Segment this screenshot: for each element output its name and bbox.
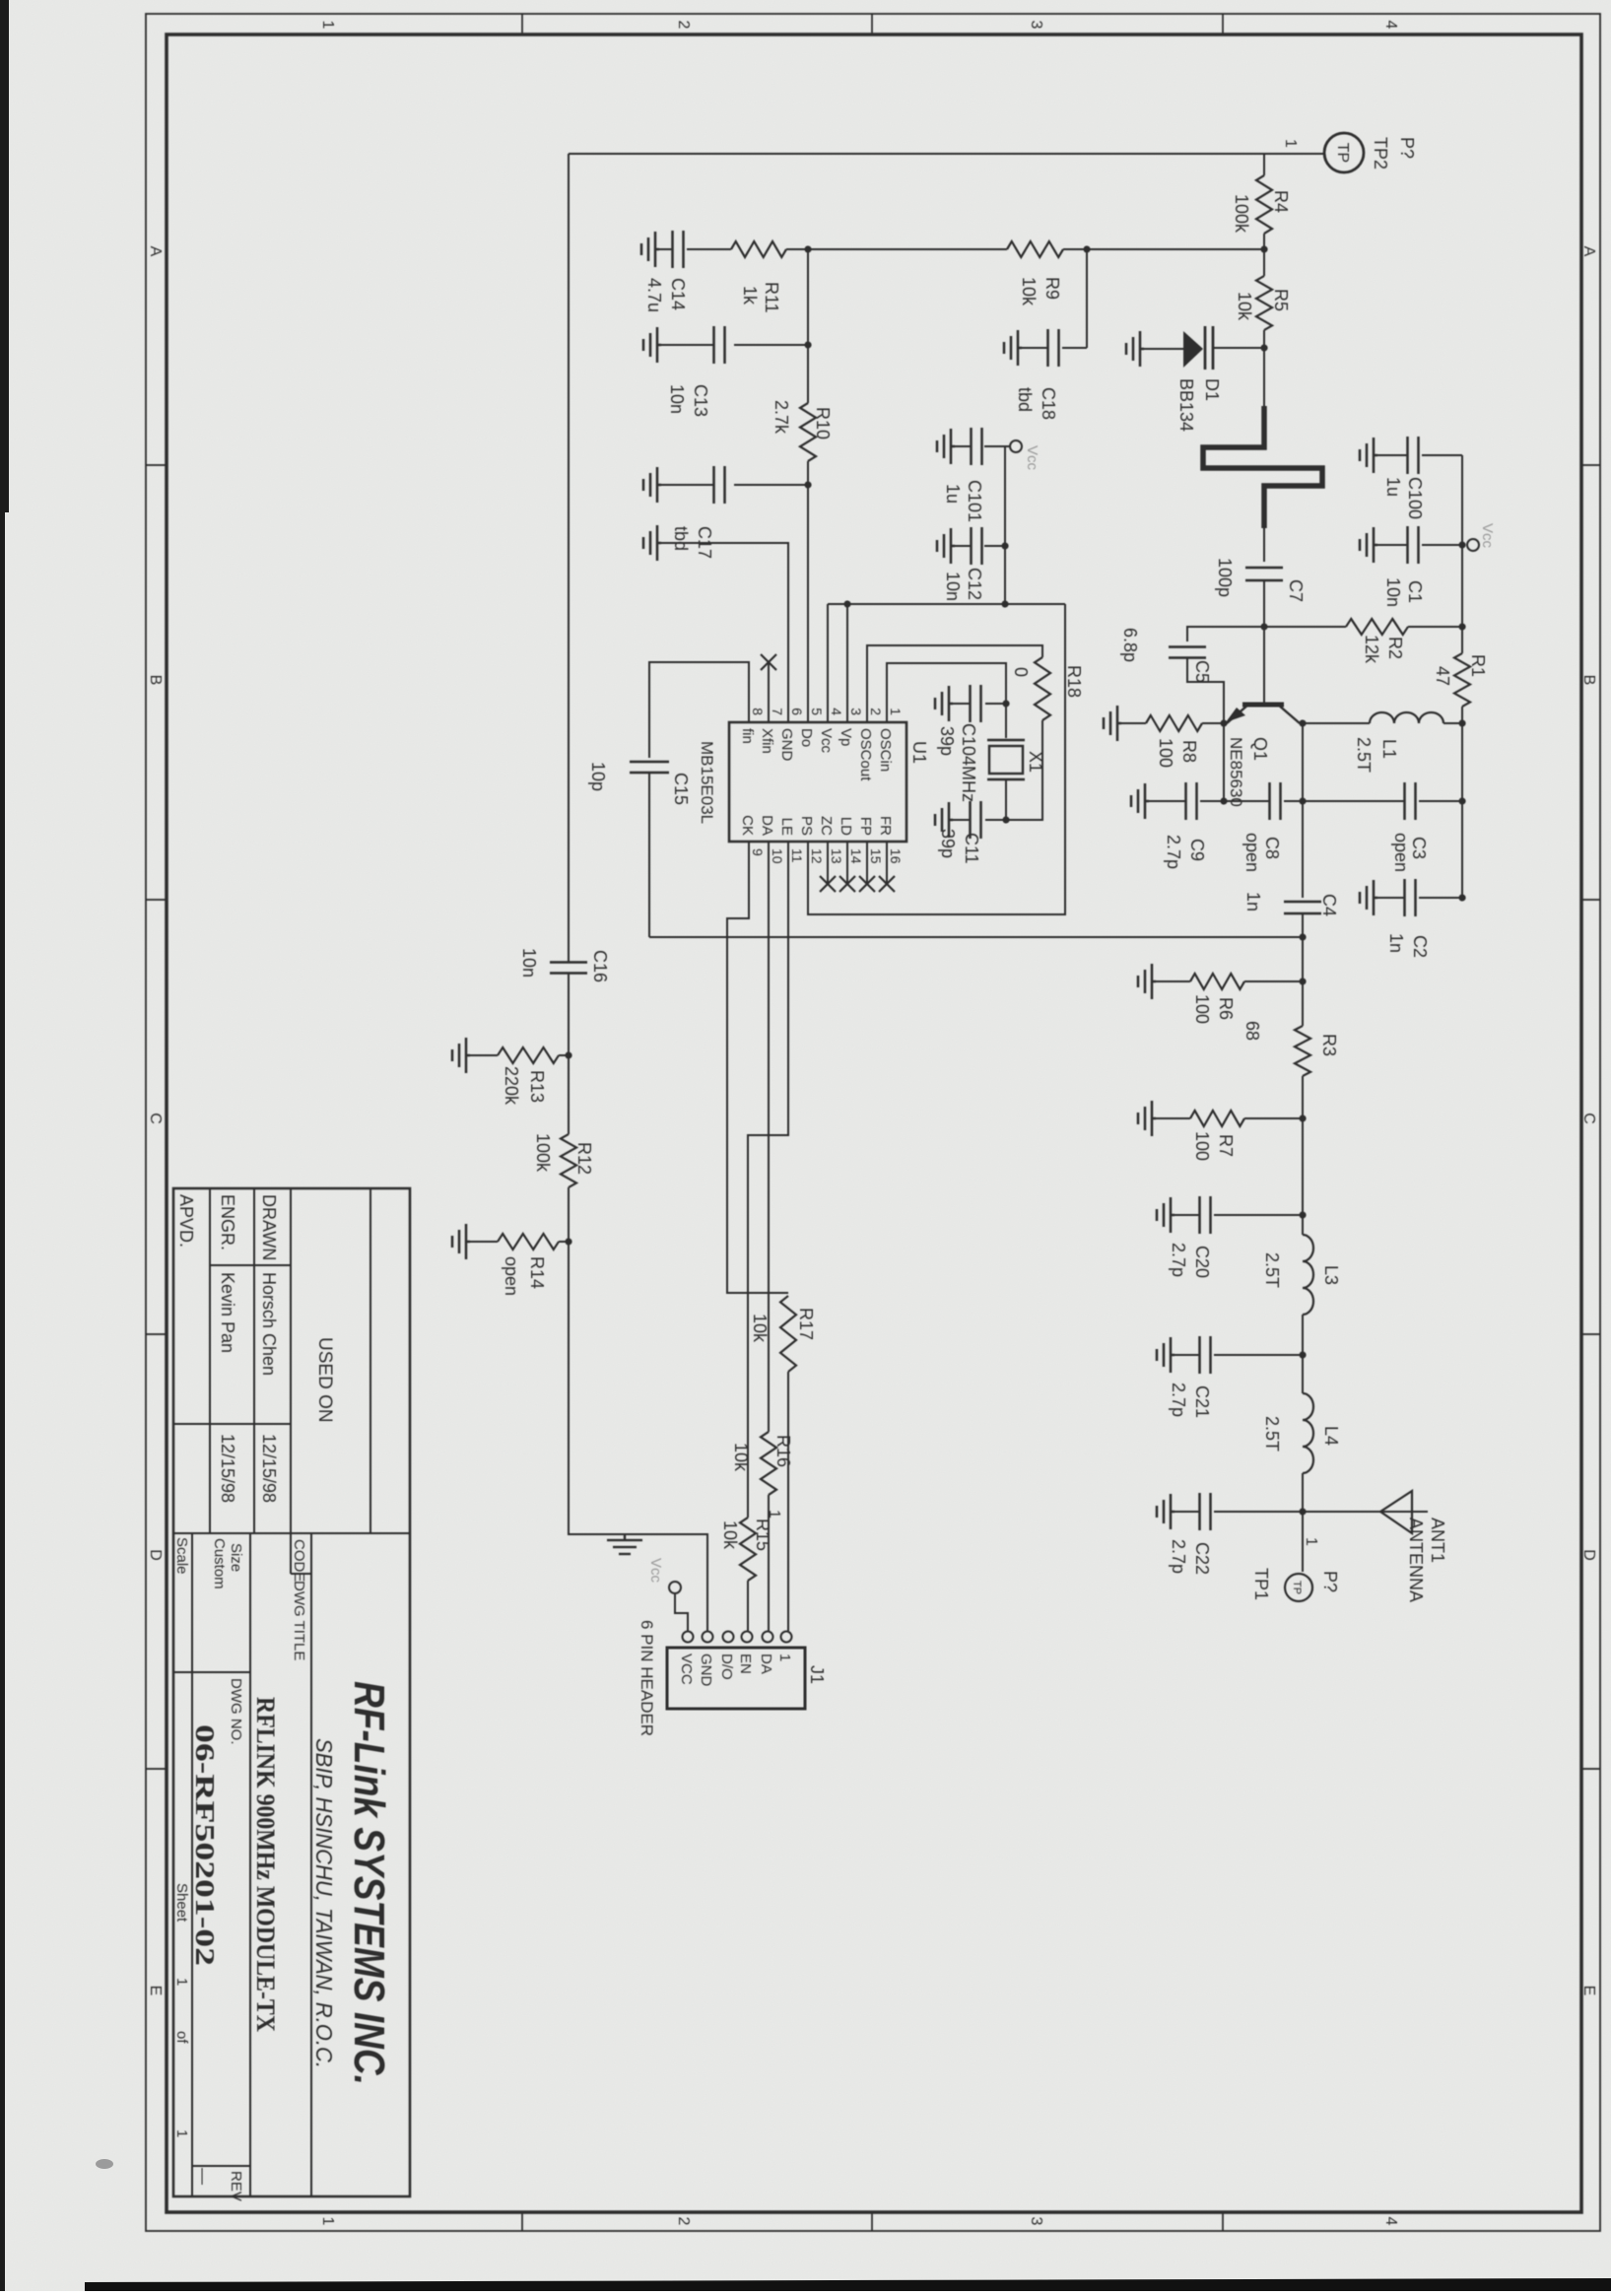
wire U1 GND pin6 route [661, 543, 788, 722]
wire R4R5 node down to C18 node [1063, 248, 1264, 250]
svg-text:Size: Size [228, 1543, 244, 1572]
svg-text:15: 15 [868, 848, 884, 864]
wire U1 Vcc pin4 [827, 604, 829, 722]
resistor R13 220k [498, 1047, 559, 1063]
wire C22 top stub [1214, 1511, 1303, 1513]
capacitor C8 open [1279, 782, 1282, 820]
capacitor C1 10n [1417, 526, 1420, 564]
wire R15 to J1 EN [747, 1581, 749, 1631]
ground at R8 [1104, 706, 1121, 741]
svg-text:12k: 12k [1362, 635, 1381, 664]
svg-text:1: 1 [1282, 139, 1299, 148]
junction D1 node [1260, 344, 1267, 351]
wire U1 fin pin8 route [649, 662, 749, 758]
ground at C21 [1157, 1337, 1175, 1373]
junction node N1 (C7/R2/C5/base) [1260, 623, 1267, 630]
svg-text:C101: C101 [965, 480, 984, 522]
svg-text:DWG NO.: DWG NO. [228, 1678, 244, 1745]
capacitor C20 2.7p [1209, 1196, 1212, 1234]
resistor R12 100k [561, 1134, 576, 1187]
svg-text:TP1: TP1 [1251, 1568, 1271, 1600]
junction X1 bottom node [1002, 816, 1009, 823]
svg-text:1: 1 [319, 2217, 336, 2226]
svg-text:R15: R15 [753, 1519, 772, 1551]
ground at R13 [452, 1038, 470, 1073]
svg-text:LD: LD [838, 817, 854, 836]
svg-text:11: 11 [789, 848, 805, 863]
svg-text:C18: C18 [1039, 387, 1058, 420]
capacitor C13 10n [723, 326, 726, 364]
wire RF riser up to output line [649, 936, 1303, 938]
svg-text:tbd: tbd [671, 526, 691, 551]
junction R2 top node [1458, 623, 1465, 630]
ground at C14 [641, 232, 659, 267]
wire C9 top stub [1200, 800, 1224, 802]
svg-text:14: 14 [848, 848, 864, 864]
svg-text:1n: 1n [1386, 933, 1406, 953]
wire C12 down [984, 545, 1005, 547]
svg-text:Do: Do [798, 728, 815, 747]
svg-text:C4: C4 [1319, 894, 1339, 916]
wire C20 node to L3 [1302, 1215, 1304, 1235]
wire X1 right stub [1005, 779, 1007, 820]
svg-text:P?: P? [1397, 137, 1417, 159]
wire C3 node to C4 [1302, 801, 1304, 898]
resistor R18 0 ohm [1035, 657, 1050, 720]
ground at C12 [937, 528, 955, 564]
inductor L1 2.5T [1370, 712, 1443, 723]
svg-text:C1: C1 [1405, 580, 1425, 603]
wire C18 stub down [1062, 347, 1087, 349]
svg-text:OSCin: OSCin [877, 728, 894, 772]
svg-text:GND: GND [778, 728, 795, 762]
svg-text:R11: R11 [762, 282, 781, 313]
ground on bus to J1 [607, 1534, 642, 1554]
svg-text:C16: C16 [590, 950, 610, 982]
svg-text:R12: R12 [574, 1142, 594, 1175]
wire C1 to ground [1377, 544, 1407, 546]
connector J1 body [667, 1648, 805, 1709]
junction Q1 collector node [1299, 719, 1306, 726]
svg-text:2.5T: 2.5T [1354, 737, 1374, 773]
svg-text:10k: 10k [1019, 277, 1039, 306]
J1 pin circle DA [763, 1632, 773, 1643]
svg-text:2.5T: 2.5T [1262, 1416, 1282, 1452]
svg-text:39p: 39p [938, 829, 958, 858]
resistor R5 10k [1256, 276, 1272, 330]
junction Q1 emitter node [1220, 719, 1227, 726]
svg-text:R10: R10 [813, 407, 833, 439]
svg-text:47: 47 [1433, 666, 1452, 686]
junction C21 node [1299, 1351, 1306, 1358]
svg-text:Vp: Vp [838, 728, 854, 746]
wire C2 top stub [1419, 897, 1462, 899]
resistor R7 100 [1190, 1111, 1244, 1126]
wire R2 top stub [1408, 626, 1462, 628]
svg-text:Vcc: Vcc [1479, 523, 1496, 549]
wire R7 top stub [1244, 1117, 1303, 1119]
ground at C17 [643, 467, 661, 503]
svg-text:1: 1 [173, 1978, 190, 1986]
svg-text:C22: C22 [1192, 1542, 1212, 1575]
svg-text:D1: D1 [1202, 378, 1222, 401]
svg-text:4: 4 [1382, 21, 1399, 30]
J1 pin circle GND [703, 1632, 713, 1643]
svg-text:1: 1 [173, 2129, 190, 2137]
wire C4 to RF node [1302, 913, 1304, 981]
svg-text:2.7p: 2.7p [1164, 835, 1183, 869]
svg-text:R2: R2 [1385, 637, 1405, 659]
svg-text:Vcc: Vcc [647, 1558, 664, 1584]
svg-text:B: B [1580, 675, 1597, 686]
svg-text:Vcc: Vcc [1024, 445, 1040, 471]
junction C3 top node [1458, 797, 1465, 804]
wire X1 left stub [1005, 704, 1007, 738]
svg-text:C21: C21 [1192, 1385, 1212, 1418]
wire TP2 vertical drop [569, 153, 1323, 155]
svg-text:C13: C13 [691, 384, 710, 417]
svg-text:6.8p: 6.8p [1120, 628, 1140, 662]
capacitor C7 100p [1245, 567, 1283, 570]
wire Do node down to R11 [786, 248, 808, 250]
ground at R7 [1138, 1101, 1156, 1136]
wire C12 to ground [955, 545, 972, 547]
svg-text:J1: J1 [807, 1665, 827, 1684]
wire R14 top stub [559, 1241, 569, 1243]
wire R18 to X1 bottom node [1006, 720, 1042, 820]
wire Vp-Vcc rail vertical [828, 603, 1065, 605]
svg-text:GND: GND [698, 1654, 714, 1687]
title block grid [173, 1188, 410, 2196]
wire L4 to antenna node [1302, 1473, 1304, 1572]
svg-text:Xfin: Xfin [759, 728, 775, 754]
wire R13 to ground [470, 1054, 498, 1056]
junction X1 top node [1002, 700, 1009, 707]
svg-text:D: D [147, 1549, 164, 1561]
J1 pin circle EN [742, 1632, 753, 1643]
svg-text:1u: 1u [1383, 477, 1403, 497]
capacitor C3 open [1414, 782, 1417, 820]
wire C14 to ground [659, 248, 672, 250]
svg-text:100k: 100k [533, 1133, 553, 1173]
svg-text:1: 1 [766, 1510, 782, 1519]
resistor R10 2.7k [800, 403, 816, 461]
svg-text:R16: R16 [773, 1435, 793, 1467]
svg-text:L1: L1 [1379, 739, 1399, 759]
wire C21 top stub [1214, 1354, 1303, 1356]
svg-text:R7: R7 [1216, 1134, 1236, 1157]
ground at C10 [935, 686, 953, 721]
crystal X1 electrodes [987, 739, 1025, 742]
J1 pin circle 1 [781, 1632, 792, 1643]
wire C17 down [734, 484, 808, 486]
wire Do line left segment [807, 249, 809, 403]
svg-text:LE: LE [778, 818, 795, 836]
crystal X1 body [989, 746, 1023, 774]
wire R17 to J1 pin1 [787, 1372, 789, 1631]
svg-text:2.7p: 2.7p [1169, 1539, 1188, 1574]
ground at D1 anode [1126, 331, 1144, 367]
svg-text:1: 1 [1303, 1537, 1319, 1546]
wire C100 top [1422, 454, 1462, 456]
svg-text:Vcc: Vcc [818, 728, 835, 754]
svg-text:2: 2 [868, 708, 884, 715]
wire C10 down [985, 703, 1006, 705]
svg-text:OSCout: OSCout [857, 728, 874, 781]
svg-text:2.5T: 2.5T [1262, 1252, 1282, 1288]
svg-text:C8: C8 [1262, 837, 1282, 859]
svg-text:DA: DA [758, 1654, 774, 1674]
svg-text:USED ON: USED ON [314, 1337, 335, 1423]
no-connect X on pin 16 [879, 876, 895, 892]
svg-text:open: open [1391, 833, 1411, 872]
IC U1 MB15E03L body [729, 722, 906, 842]
wire Vcc rail left segment [1461, 455, 1463, 653]
wire C5 to emitter node [1187, 658, 1224, 723]
capacitor C10 39p [979, 685, 982, 722]
junction C20 node [1299, 1211, 1306, 1218]
svg-text:C: C [147, 1113, 164, 1124]
wire U1 Vp pin3 [846, 604, 848, 722]
scanner edge artifact bottom strip [85, 2278, 1611, 2291]
svg-text:A: A [1580, 246, 1597, 257]
power symbol Vcc circle main [1467, 539, 1479, 551]
svg-text:10n: 10n [943, 572, 963, 601]
wire R3 to R7 node [1302, 1076, 1304, 1215]
wire R16 to J1 DA [768, 1495, 770, 1631]
wire R8 to ground [1121, 722, 1146, 724]
svg-text:0: 0 [1011, 667, 1031, 677]
power symbol Vcc circle near J1 [669, 1582, 681, 1593]
J1 pin circle D/O [723, 1632, 734, 1643]
wire C20 top stub [1214, 1214, 1303, 1216]
svg-text:4: 4 [829, 708, 844, 715]
junction R7 node [1299, 1114, 1306, 1121]
wire C13 down [734, 344, 808, 346]
inductor L3 2.5T [1303, 1235, 1313, 1315]
svg-text:Sheet: Sheet [173, 1883, 190, 1923]
junction R4/R5 node [1260, 245, 1267, 252]
svg-text:2.7p: 2.7p [1169, 1243, 1188, 1277]
resistor R14 open [498, 1234, 559, 1249]
junction RF riser node [1299, 933, 1306, 940]
scanner edge artifact top left [0, 0, 9, 512]
resistor R3 68 [1295, 1026, 1310, 1076]
wire emitter node to C8/C9 node [1223, 723, 1225, 801]
wire R7 to ground [1156, 1117, 1190, 1119]
wire R2 bottom to N1 [1264, 626, 1346, 628]
svg-text:9: 9 [750, 848, 766, 856]
wire U1 pin 14 stub [846, 842, 848, 884]
svg-text:100: 100 [1192, 1131, 1212, 1161]
svg-text:13: 13 [829, 848, 844, 864]
wire C1 top [1422, 544, 1462, 546]
wire U1 Xfin pin7 stub [768, 662, 770, 722]
svg-text:10n: 10n [519, 948, 539, 978]
svg-text:100k: 100k [1232, 194, 1251, 234]
svg-text:6: 6 [789, 708, 805, 715]
svg-text:C11: C11 [962, 833, 981, 864]
power symbol Vcc circle near C101 [1010, 440, 1022, 452]
resistor R2 12k [1346, 619, 1408, 635]
wire U1 pin 13 stub [827, 842, 829, 884]
wire R6 top stub [1244, 980, 1303, 982]
svg-text:06-RF50201-02: 06-RF50201-02 [190, 1724, 220, 1966]
junction Vcc circle node [1458, 541, 1465, 548]
wire C3 top stub [1419, 800, 1462, 802]
capacitor C18 tbd [1057, 329, 1060, 367]
wire collector line to C3 node [1302, 723, 1304, 801]
svg-text:2.7k: 2.7k [772, 400, 791, 435]
svg-text:16: 16 [888, 848, 904, 864]
svg-text:C5: C5 [1192, 660, 1212, 683]
wire C13 to ground [661, 344, 713, 346]
capacitor C16 10n [550, 961, 587, 964]
svg-text:FP: FP [857, 817, 874, 836]
junction antenna node [1299, 1508, 1306, 1515]
svg-text:MB15E03L: MB15E03L [698, 741, 716, 824]
svg-text:12/15/98: 12/15/98 [259, 1434, 279, 1503]
svg-text:ENGR.: ENGR. [218, 1194, 237, 1250]
wire D1 cathode stub [1214, 347, 1264, 349]
test point TP1 circle [1285, 1574, 1312, 1601]
ground at C22 [1157, 1494, 1175, 1529]
inductor L4 2.5T [1303, 1393, 1313, 1473]
wire base lead N1 to Q1 [1263, 627, 1265, 704]
wire Vcc distribution line [1004, 446, 1006, 604]
svg-text:tbd: tbd [1015, 387, 1035, 412]
wire R4 to R5 [1263, 234, 1265, 276]
svg-text:TP: TP [1334, 143, 1351, 163]
test point TP2 circle [1324, 133, 1364, 172]
svg-text:R9: R9 [1042, 277, 1062, 300]
resistor R8 100 [1146, 715, 1202, 731]
wire U1 pin 15 stub [866, 842, 868, 884]
svg-text:10k: 10k [720, 1520, 740, 1550]
junction Vp on rail [843, 600, 850, 607]
svg-text:R6: R6 [1216, 997, 1236, 1020]
resistor R11 1k [731, 241, 786, 257]
svg-text:1n: 1n [1243, 892, 1263, 912]
svg-text:C: C [1580, 1113, 1597, 1124]
svg-text:12: 12 [809, 848, 825, 864]
svg-text:P?: P? [1320, 1571, 1340, 1592]
svg-text:APVD.: APVD. [176, 1194, 196, 1248]
wire C2 to ground [1377, 897, 1404, 899]
svg-text:C3: C3 [1409, 837, 1429, 859]
resistor R9 10k [1007, 241, 1063, 257]
junction C3/C8 node [1299, 797, 1306, 804]
resistor R1 47 [1454, 653, 1470, 707]
wire C101 to ground [955, 445, 972, 447]
svg-text:DWG TITLE: DWG TITLE [291, 1581, 307, 1660]
svg-text:4.7u: 4.7u [644, 278, 664, 312]
capacitor C14 4.7u [682, 231, 685, 268]
resistor R6 100 [1190, 974, 1244, 989]
resistor R17 10k [780, 1296, 796, 1372]
wire bus segment R12 to corner and up to J1 GND [569, 1187, 707, 1631]
thick microstrip meander [1203, 406, 1322, 528]
wire C11 down [985, 819, 1006, 821]
wire emitter to R8 [1202, 722, 1224, 724]
wire C9 to ground [1149, 800, 1186, 802]
svg-text:E: E [1580, 1986, 1597, 1996]
wire U1 LE pin11 route [748, 842, 788, 1518]
svg-text:TP: TP [1291, 1581, 1303, 1594]
svg-text:L4: L4 [1321, 1426, 1341, 1446]
svg-text:R17: R17 [796, 1308, 816, 1340]
svg-text:REV: REV [228, 2171, 244, 2201]
svg-text:NE85630: NE85630 [1227, 737, 1245, 807]
junction C8/C9 node [1220, 797, 1227, 804]
ground at C11 [935, 802, 953, 838]
svg-text:12/15/98: 12/15/98 [218, 1434, 237, 1503]
capacitor C2 1n [1414, 879, 1417, 916]
svg-text:8: 8 [750, 708, 766, 715]
svg-text:1: 1 [319, 21, 336, 30]
junction L1 top node [1458, 719, 1465, 726]
svg-text:10n: 10n [667, 384, 687, 414]
svg-text:10k: 10k [750, 1314, 770, 1343]
svg-text:C2: C2 [1410, 935, 1430, 958]
capacitor C11 39p [979, 801, 982, 839]
wire C7 to node N1 [1263, 580, 1265, 627]
capacitor C17 tbd [723, 466, 726, 504]
svg-text:—: — [194, 2168, 213, 2185]
svg-text:10: 10 [770, 848, 785, 864]
svg-text:100: 100 [1156, 738, 1175, 768]
svg-text:R5: R5 [1271, 289, 1291, 311]
svg-text:of: of [173, 2031, 190, 2044]
no-connect X on Xfin [761, 654, 776, 670]
transistor Q1 base bar [1242, 703, 1284, 708]
junction R13 node [565, 1051, 571, 1058]
wire C18 stub horizontal [1086, 249, 1088, 348]
svg-text:3: 3 [1028, 2217, 1044, 2226]
wire L3 to C21 node [1302, 1315, 1304, 1393]
junction rail node [1001, 600, 1008, 607]
junction C17 node [804, 481, 811, 488]
ground at C1 [1360, 527, 1377, 563]
svg-text:Horsch Chen: Horsch Chen [259, 1272, 279, 1376]
wire R9 to Do node [808, 248, 1007, 250]
svg-text:2: 2 [675, 21, 692, 30]
svg-text:1u: 1u [943, 484, 963, 504]
svg-text:6 PIN HEADER: 6 PIN HEADER [638, 1620, 656, 1736]
svg-text:DA: DA [759, 815, 775, 836]
ground at C18 [1004, 330, 1022, 366]
svg-text:10n: 10n [1383, 577, 1403, 607]
svg-text:C9: C9 [1187, 839, 1207, 861]
svg-text:C15: C15 [671, 773, 691, 805]
no-connect X on pin 15 [859, 876, 875, 892]
svg-text:FR: FR [877, 816, 894, 836]
svg-text:R14: R14 [527, 1256, 547, 1289]
ground at C2 [1360, 880, 1377, 915]
svg-text:39p: 39p [937, 726, 957, 756]
svg-text:R1: R1 [1468, 654, 1488, 677]
wire R6 node to R3 [1302, 981, 1304, 1026]
antenna ANT1 symbol [1380, 1491, 1412, 1533]
svg-text:10p: 10p [588, 762, 608, 791]
wire C101 top [984, 445, 1010, 447]
svg-text:R3: R3 [1319, 1034, 1339, 1056]
svg-text:PS: PS [798, 816, 815, 836]
wire R13 top stub [559, 1054, 569, 1056]
wire U1 pin 16 stub [886, 842, 888, 884]
wire U1 CK pin9 route [727, 842, 788, 1293]
wire C22 to ground [1175, 1511, 1200, 1513]
